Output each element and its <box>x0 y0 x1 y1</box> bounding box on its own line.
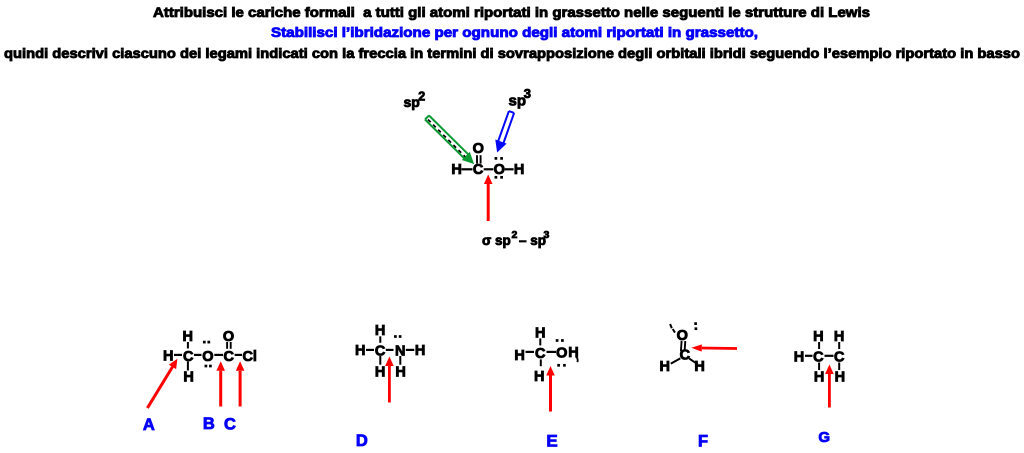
svg-text:H: H <box>514 348 524 364</box>
svg-text:H: H <box>694 359 704 375</box>
s3 bond C-O <box>547 351 557 353</box>
svg-text:H: H <box>794 349 804 365</box>
s1 lone pair below O1 <box>205 365 208 368</box>
example lone pair above O <box>495 157 498 160</box>
s1 lone pair above O1 <box>203 341 206 344</box>
svg-text:H: H <box>355 343 365 359</box>
s5 vbond C2-Hbr <box>838 363 840 371</box>
s3 lone pair below O <box>557 364 560 367</box>
svg-text:– sp: – sp <box>519 233 546 248</box>
svg-text:F: F <box>698 433 708 451</box>
s1 red arrow A <box>147 367 172 408</box>
svg-text:C: C <box>680 348 691 364</box>
s5 vbond C1-Hbl <box>818 363 820 371</box>
s3 lone pair above O <box>556 339 559 342</box>
s3 red arrow E <box>549 376 552 412</box>
s1 bond C2-Cl <box>235 354 242 356</box>
s5 bond C1-C2 <box>825 355 834 357</box>
s5 bond H-C1 <box>805 355 813 357</box>
s3 comma mark <box>576 357 578 363</box>
s1 bond C1-O1 <box>194 354 202 356</box>
s3 vbond Htop-C <box>539 338 541 345</box>
svg-text:O: O <box>202 349 213 365</box>
svg-text:H: H <box>183 370 193 386</box>
svg-text:A: A <box>143 416 155 434</box>
svg-text:C: C <box>224 416 236 434</box>
s4 bond C-Hleft <box>671 358 681 363</box>
s2 bond H-C <box>366 349 374 351</box>
svg-text:Stabilisci l’ibridazione per o: Stabilisci l’ibridazione per ognuno degl… <box>271 25 758 40</box>
s1 red arrow B <box>219 371 222 407</box>
svg-text:Cl: Cl <box>242 349 257 365</box>
green block arrow (sp2) <box>425 116 468 159</box>
svg-text:E: E <box>546 431 557 450</box>
svg-text:3: 3 <box>524 86 531 101</box>
svg-text:B: B <box>203 415 215 433</box>
s2 bond N-H <box>406 349 415 351</box>
s4 lone pair colon upper-right <box>694 322 697 325</box>
s5 vbond Htl-C1 <box>818 342 820 349</box>
svg-text:O: O <box>494 162 505 178</box>
svg-text:quindi descrivi ciascuno dei l: quindi descrivi ciascuno dei legami indi… <box>4 46 1020 61</box>
s1 C2=O2 double bond <box>226 342 228 349</box>
s4 bond C-Hright <box>689 358 698 364</box>
svg-text:2: 2 <box>418 90 425 104</box>
svg-text:G: G <box>818 429 830 446</box>
s1 bond O1-C2 <box>214 354 223 356</box>
svg-text:H: H <box>163 349 173 365</box>
s2 vbond C-Hbot <box>379 356 381 365</box>
s2 bond C-N <box>386 349 394 351</box>
s2 lone pair above N <box>394 335 397 338</box>
s1 vbond C1-Hbottom <box>187 362 189 371</box>
example red arrow to C-O bond <box>487 184 490 221</box>
example bond H1-C <box>462 168 473 170</box>
blue block arrow (sp3) <box>498 111 514 143</box>
s2 vbond N-Hbot <box>399 356 401 365</box>
svg-text:Attribuisci le cariche formali: Attribuisci le cariche formali a tutti g… <box>153 5 870 20</box>
s1 bond H-C1 <box>174 354 182 356</box>
svg-text:H: H <box>660 359 670 375</box>
svg-text:H: H <box>835 369 845 385</box>
s2 vbond Htop-C <box>379 336 381 343</box>
s5 red arrow G <box>828 374 831 408</box>
svg-text:O: O <box>223 329 234 345</box>
svg-text:2: 2 <box>512 229 518 241</box>
svg-text:H: H <box>534 369 544 385</box>
svg-text:O: O <box>556 346 567 362</box>
svg-text:3: 3 <box>544 229 550 241</box>
example lone pair below O <box>495 176 498 179</box>
svg-text:C: C <box>224 349 235 365</box>
s4 C=O double bond <box>680 341 683 351</box>
svg-text:H: H <box>415 343 425 359</box>
dashed guide line inside green arrow <box>428 120 467 159</box>
svg-text:D: D <box>356 432 368 450</box>
s3 vbond C-Hbot <box>540 359 542 366</box>
s4 lone pair ticks upper-left <box>670 324 672 328</box>
s4 red arrow F <box>702 347 737 350</box>
svg-text:O: O <box>473 141 484 157</box>
example C=O double bond <box>476 155 478 163</box>
svg-text:σ sp: σ sp <box>482 233 511 248</box>
s5 vbond Htr-C2 <box>838 342 840 349</box>
s1 red arrow C <box>239 371 242 407</box>
example bond O-H2 <box>505 168 514 170</box>
s3 bond H-C <box>526 351 535 353</box>
svg-text:H: H <box>814 369 824 385</box>
svg-text:H: H <box>375 364 385 380</box>
svg-text:C: C <box>473 162 484 178</box>
s2 red arrow D <box>388 366 391 403</box>
svg-text:H: H <box>514 162 524 178</box>
example bond C-O <box>484 168 494 170</box>
svg-text:H: H <box>395 364 405 380</box>
s1 vbond Htop-C1 <box>187 342 189 349</box>
svg-text:H: H <box>451 162 461 178</box>
